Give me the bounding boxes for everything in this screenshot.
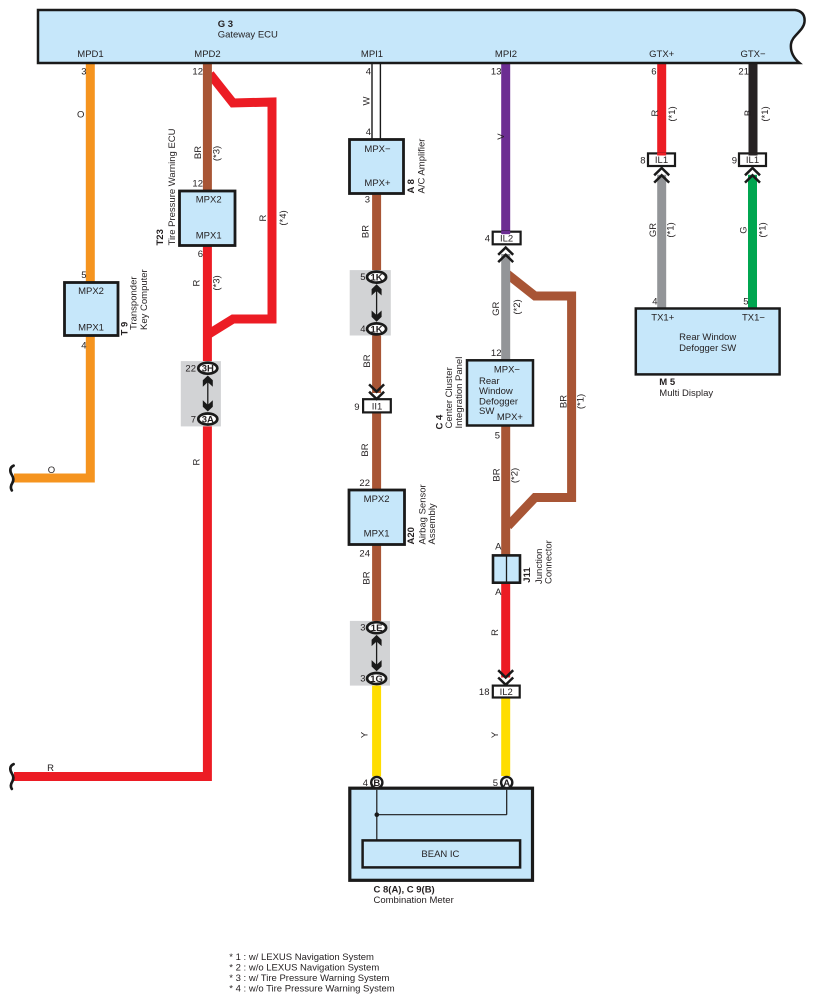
- svg-text:6: 6: [651, 66, 656, 77]
- svg-text:A: A: [495, 541, 502, 552]
- svg-text:Y: Y: [490, 731, 501, 738]
- svg-text:GR: GR: [491, 302, 502, 316]
- svg-text:5: 5: [493, 778, 498, 789]
- svg-text:1G: 1G: [370, 674, 383, 685]
- svg-text:3: 3: [360, 622, 365, 633]
- svg-text:(*2): (*2): [509, 468, 520, 483]
- svg-text:II1: II1: [372, 401, 383, 412]
- svg-text:4: 4: [366, 66, 371, 77]
- svg-text:Integration Panel: Integration Panel: [454, 357, 465, 429]
- svg-text:Tire Pressure Warning ECU: Tire Pressure Warning ECU: [167, 128, 178, 245]
- svg-text:9: 9: [354, 402, 359, 413]
- svg-text:MPX−: MPX−: [494, 364, 521, 375]
- svg-text:9: 9: [732, 155, 737, 166]
- svg-text:5: 5: [495, 431, 500, 442]
- svg-text:22: 22: [185, 364, 196, 375]
- svg-text:MPI2: MPI2: [495, 49, 517, 60]
- svg-text:13: 13: [491, 66, 502, 77]
- svg-text:A: A: [495, 587, 502, 598]
- svg-text:5: 5: [81, 270, 86, 281]
- svg-text:MPD1: MPD1: [77, 49, 103, 60]
- svg-text:BR: BR: [360, 443, 371, 456]
- svg-text:BR: BR: [558, 395, 569, 408]
- svg-text:A20: A20: [406, 527, 417, 544]
- svg-text:GTX−: GTX−: [740, 49, 766, 60]
- svg-text:* 2 : w/o LEXUS Navigation Sys: * 2 : w/o LEXUS Navigation System: [229, 962, 379, 973]
- svg-text:MPX1: MPX1: [364, 528, 390, 539]
- svg-text:W: W: [362, 96, 373, 105]
- svg-text:R: R: [258, 214, 269, 221]
- svg-text:Combination Meter: Combination Meter: [374, 895, 454, 906]
- svg-text:1K: 1K: [371, 324, 383, 335]
- svg-text:4: 4: [81, 340, 86, 351]
- svg-text:BEAN IC: BEAN IC: [421, 849, 459, 860]
- svg-text:Defogger SW: Defogger SW: [679, 343, 736, 354]
- svg-text:V: V: [496, 133, 507, 140]
- svg-text:(*1): (*1): [760, 106, 771, 121]
- svg-text:G 3: G 3: [218, 19, 233, 30]
- svg-text:R: R: [47, 763, 54, 774]
- svg-text:BR: BR: [491, 468, 502, 481]
- svg-text:4: 4: [360, 324, 365, 335]
- svg-text:GTX+: GTX+: [649, 49, 675, 60]
- svg-text:8: 8: [640, 155, 645, 166]
- svg-text:1K: 1K: [371, 273, 383, 284]
- svg-text:B: B: [373, 778, 380, 789]
- svg-text:Rear Window: Rear Window: [679, 332, 736, 343]
- svg-text:5: 5: [743, 296, 748, 307]
- svg-text:A 8: A 8: [406, 179, 417, 193]
- svg-text:21: 21: [738, 66, 749, 77]
- svg-text:* 3 : w/ Tire Pressure Warning: * 3 : w/ Tire Pressure Warning System: [229, 973, 389, 984]
- svg-text:22: 22: [359, 478, 370, 489]
- svg-text:MPX2: MPX2: [196, 195, 222, 206]
- svg-text:4: 4: [485, 233, 490, 244]
- svg-text:C 8(A), C 9(B): C 8(A), C 9(B): [374, 884, 435, 895]
- svg-text:Y: Y: [360, 731, 371, 738]
- svg-text:MPX1: MPX1: [196, 231, 222, 242]
- svg-text:(*4): (*4): [278, 210, 289, 225]
- svg-text:A/C Amplifier: A/C Amplifier: [416, 139, 427, 194]
- svg-text:MPD2: MPD2: [194, 49, 220, 60]
- svg-text:SW: SW: [479, 406, 494, 417]
- svg-text:R: R: [650, 109, 661, 116]
- svg-text:MPX2: MPX2: [364, 494, 390, 505]
- svg-text:J11: J11: [522, 567, 533, 583]
- svg-text:7: 7: [191, 414, 196, 425]
- svg-text:24: 24: [359, 548, 370, 559]
- svg-text:BR: BR: [360, 225, 371, 238]
- svg-text:GR: GR: [648, 223, 659, 237]
- svg-text:3: 3: [81, 66, 86, 77]
- svg-text:(*1): (*1): [575, 394, 586, 409]
- svg-text:12: 12: [192, 178, 203, 189]
- svg-text:R: R: [191, 458, 202, 465]
- svg-text:MPX+: MPX+: [497, 412, 524, 423]
- svg-text:3H: 3H: [202, 364, 214, 375]
- svg-text:BR: BR: [362, 354, 373, 367]
- svg-text:IL1: IL1: [655, 155, 668, 166]
- svg-text:TX1−: TX1−: [742, 312, 765, 323]
- svg-text:B: B: [743, 110, 754, 116]
- svg-text:18: 18: [479, 687, 490, 698]
- svg-text:R: R: [191, 279, 202, 286]
- svg-text:M 5: M 5: [659, 377, 676, 388]
- svg-text:12: 12: [192, 66, 203, 77]
- svg-text:MPX1: MPX1: [78, 322, 104, 333]
- svg-text:5: 5: [360, 272, 365, 283]
- svg-text:IL1: IL1: [746, 155, 759, 166]
- svg-text:3A: 3A: [202, 414, 214, 425]
- svg-text:(*3): (*3): [211, 146, 222, 161]
- svg-text:TX1+: TX1+: [651, 312, 674, 323]
- svg-text:4: 4: [366, 127, 371, 138]
- svg-text:(*1): (*1): [667, 106, 678, 121]
- svg-text:1E: 1E: [371, 623, 383, 634]
- svg-text:Multi Display: Multi Display: [659, 388, 713, 399]
- svg-text:IL2: IL2: [500, 687, 513, 698]
- svg-text:6: 6: [198, 249, 203, 260]
- svg-text:R: R: [490, 629, 501, 636]
- svg-text:MPX2: MPX2: [78, 286, 104, 297]
- svg-text:BR: BR: [193, 146, 204, 159]
- svg-text:(*3): (*3): [211, 275, 222, 290]
- svg-text:MPX−: MPX−: [364, 144, 391, 155]
- svg-text:BR: BR: [362, 571, 373, 584]
- svg-text:Gateway ECU: Gateway ECU: [218, 30, 278, 41]
- svg-text:(*2): (*2): [512, 299, 523, 314]
- svg-text:Connector: Connector: [543, 540, 554, 584]
- svg-text:(*1): (*1): [757, 222, 768, 237]
- svg-text:T23: T23: [155, 229, 166, 245]
- svg-text:4: 4: [363, 778, 368, 789]
- svg-text:G: G: [739, 226, 750, 233]
- svg-text:12: 12: [491, 348, 502, 359]
- svg-text:Key Computer: Key Computer: [139, 269, 150, 330]
- svg-text:O: O: [77, 109, 84, 120]
- svg-text:MPI1: MPI1: [361, 49, 383, 60]
- svg-text:3: 3: [365, 195, 370, 206]
- svg-text:A: A: [503, 778, 510, 789]
- svg-text:MPX+: MPX+: [364, 178, 391, 189]
- svg-text:O: O: [48, 465, 55, 476]
- svg-text:4: 4: [652, 296, 657, 307]
- svg-text:* 4 : w/o Tire Pressure Warnin: * 4 : w/o Tire Pressure Warning System: [229, 983, 395, 994]
- svg-text:Transponder: Transponder: [129, 276, 140, 330]
- svg-text:* 1 : w/ LEXUS Navigation Syst: * 1 : w/ LEXUS Navigation System: [229, 952, 374, 963]
- svg-text:IL2: IL2: [500, 233, 513, 244]
- svg-text:Assembly: Assembly: [427, 503, 438, 544]
- svg-text:3: 3: [360, 673, 365, 684]
- svg-text:(*1): (*1): [665, 222, 676, 237]
